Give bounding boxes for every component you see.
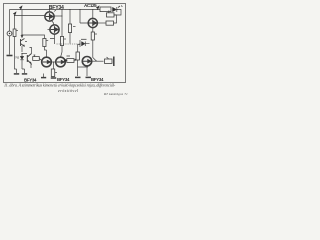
transistor Q1 xyxy=(21,39,25,47)
svg-text:BFY34: BFY34 xyxy=(91,77,104,82)
wire x78 down xyxy=(78,60,89,76)
tick mark top right xyxy=(118,6,122,8)
node J4 xyxy=(53,62,55,69)
wire A-B link xyxy=(51,61,56,63)
wire rail B xyxy=(15,15,46,17)
output cap C2 xyxy=(105,59,113,63)
transistor T2 circle xyxy=(50,25,59,34)
svg-text:RT katalógus 71: RT katalógus 71 xyxy=(103,92,128,96)
diode D3 xyxy=(113,7,117,11)
resistor R7 xyxy=(91,32,94,40)
resistor R6 xyxy=(68,24,71,33)
battery cell 1 xyxy=(107,13,115,17)
resistor R9 horizontal xyxy=(67,59,74,63)
node J5 xyxy=(79,40,81,47)
pot wiper arrow xyxy=(74,59,76,61)
wire T1 emitter right xyxy=(54,15,62,17)
blob arrow into R9 xyxy=(64,59,67,63)
junction dots xyxy=(14,9,98,63)
border frame xyxy=(4,4,126,83)
wire x70 column xyxy=(69,10,71,25)
node J3 xyxy=(21,53,22,54)
wire T6 bottom xyxy=(86,66,88,76)
node tick before Rtop xyxy=(97,7,99,9)
battery link xyxy=(114,15,117,23)
label above R9 xyxy=(67,55,71,57)
tick T1 xyxy=(54,10,56,12)
pot top wire xyxy=(78,45,80,53)
wire R6 down xyxy=(69,33,71,44)
wire Q2 collector up xyxy=(30,48,32,54)
wire T1 top xyxy=(49,10,51,12)
ground G1 xyxy=(14,73,19,75)
resistor R4 xyxy=(43,39,46,47)
node J1 xyxy=(20,7,22,9)
wire T5 top xyxy=(92,10,94,19)
transistor T4 circle B xyxy=(56,57,66,67)
transistor T3 circle A xyxy=(42,57,52,67)
resistor R1 xyxy=(13,29,16,37)
battery cell 2 xyxy=(106,21,114,25)
wire T6 right xyxy=(92,60,104,62)
diode D2 xyxy=(82,42,86,46)
R3 tick xyxy=(55,72,57,74)
svg-text:erösitövel: erösitövel xyxy=(58,88,79,93)
label near diode xyxy=(81,38,87,40)
wire R1 top xyxy=(14,16,16,30)
dashed wire input xyxy=(57,43,81,45)
wire Q1 down xyxy=(21,46,23,52)
R4 tick xyxy=(46,40,48,42)
transistor T5 circle D xyxy=(88,18,97,27)
capacitor C1 plate xyxy=(7,55,13,57)
potentiometer R8 xyxy=(76,52,79,60)
svg-text:AC125: AC125 xyxy=(84,3,97,8)
transistor T6 circle C xyxy=(82,57,91,66)
wire top rail A xyxy=(10,9,101,11)
wire mid rail y35 junction xyxy=(21,34,22,35)
R7 tick xyxy=(95,33,97,35)
resistor R3 xyxy=(51,69,54,77)
ground G3 xyxy=(52,76,54,79)
R5 tick xyxy=(64,38,66,40)
wire x80 column xyxy=(80,10,88,24)
svg-text:BFY34: BFY34 xyxy=(57,77,70,82)
wire Q2 emitter down xyxy=(30,64,32,69)
wire T1 bottom xyxy=(52,21,54,26)
ground G4 xyxy=(75,76,81,78)
ground G2 xyxy=(22,73,27,75)
output bar xyxy=(113,57,115,67)
wire R1 bottom xyxy=(14,37,16,55)
wire left column x9.5 xyxy=(9,10,11,32)
wire base column x22 xyxy=(21,10,23,38)
R6 tick xyxy=(73,26,76,28)
wire below jack xyxy=(9,36,11,55)
wire R9 to pot xyxy=(73,60,76,62)
wire J3 right xyxy=(22,53,27,55)
node J2 xyxy=(14,13,16,15)
wire T5-R7 xyxy=(92,28,94,32)
R1 tick xyxy=(16,30,18,32)
wire zener down xyxy=(15,54,25,73)
wire R4 top xyxy=(22,35,45,39)
resistor Rtop xyxy=(100,7,111,12)
transistor Q2 xyxy=(27,54,31,64)
svg-text:BFY34: BFY34 xyxy=(49,5,64,11)
wire R5 to T4 xyxy=(61,46,63,58)
wire rail A right segment xyxy=(114,10,121,16)
wire R7 down xyxy=(93,40,97,61)
ground under T3 xyxy=(43,74,45,78)
resistor R5 xyxy=(60,37,63,46)
node Q1 tick xyxy=(25,41,27,43)
wire T3 top xyxy=(45,47,47,58)
wire T2 bottom xyxy=(50,34,55,44)
input jack circle xyxy=(7,31,12,36)
zener D1 xyxy=(20,54,24,65)
transistor T1 circle xyxy=(45,12,54,21)
T2 left stub xyxy=(48,29,51,31)
capacitor C2h horizontal xyxy=(33,57,40,61)
wire x62 column xyxy=(61,10,63,37)
ground G5 xyxy=(86,76,92,78)
